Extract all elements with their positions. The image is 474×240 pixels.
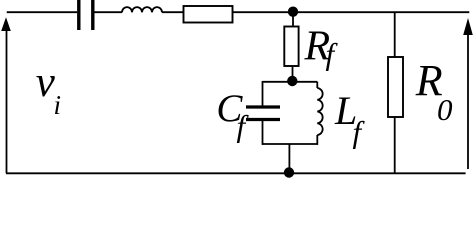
wire tank right upper — [316, 82, 318, 88]
wire — [233, 11, 470, 13]
wire — [94, 11, 122, 13]
node tank top — [287, 76, 297, 86]
svg-text:0: 0 — [437, 92, 453, 127]
resistor Rf — [284, 27, 298, 67]
wire Rf top lead — [292, 12, 294, 27]
node bottom junction — [284, 167, 294, 177]
arrow head (output) — [463, 18, 473, 35]
svg-text:i: i — [54, 90, 62, 120]
wire tank bottom stub — [288, 144, 290, 173]
wire Rf bottom lead — [292, 66, 294, 81]
capacitor Cf — [246, 107, 280, 120]
bottom wire — [6, 172, 466, 174]
resistor R0 — [388, 57, 403, 117]
inductor L1 (series) — [122, 7, 162, 12]
inductor Lf — [317, 88, 322, 135]
wire tank left upper — [262, 81, 264, 106]
capacitor C1 (input coupling) — [79, 0, 93, 30]
svg-text:f: f — [326, 37, 339, 72]
wire R0 top lead — [394, 12, 396, 57]
wire — [7, 11, 78, 13]
tank top wire — [263, 81, 318, 83]
node top junction — [288, 7, 298, 17]
resistor R1 (series) — [184, 6, 233, 23]
tank bottom wire — [263, 143, 318, 145]
node vi top wire — [7, 11, 470, 13]
wire — [6, 29, 8, 173]
svg-text:f: f — [237, 109, 250, 144]
left branch: source arrow — [1, 17, 11, 173]
wire tank right lower — [316, 135, 318, 145]
wire R0 bottom lead — [394, 117, 396, 173]
wire tank left lower — [262, 121, 264, 145]
svg-text:f: f — [353, 115, 366, 150]
arrow head (vi) — [1, 17, 11, 31]
wire — [162, 11, 184, 13]
right branch output arrow wire — [467, 33, 469, 169]
